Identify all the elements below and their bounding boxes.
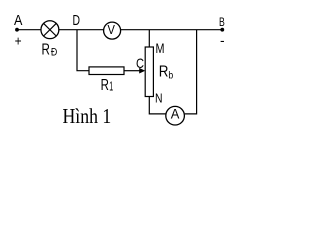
svg-text:1: 1	[109, 78, 113, 93]
ammeter A	[166, 106, 185, 125]
svg-text:C: C	[136, 55, 144, 71]
wire lamp to voltmeter	[59, 29, 103, 31]
wire voltmeter to node B	[121, 29, 223, 31]
wire D down and across to R1	[77, 30, 89, 71]
svg-text:B: B	[219, 15, 225, 29]
svg-text:N: N	[155, 90, 163, 105]
svg-text:V: V	[108, 23, 116, 37]
wire ammeter up to top wire near B	[185, 30, 197, 114]
svg-text:Hình 1: Hình 1	[63, 104, 112, 128]
node B	[219, 15, 225, 48]
resistor R1	[89, 67, 124, 94]
wire R1 to slider arrow C	[124, 68, 145, 74]
svg-text:Đ: Đ	[51, 47, 58, 59]
wire N down to ammeter	[149, 97, 165, 114]
wire A to lamp	[17, 29, 41, 31]
svg-text:A: A	[14, 12, 22, 29]
svg-text:+: +	[15, 32, 22, 48]
svg-text:M: M	[156, 40, 165, 56]
svg-text:R: R	[159, 63, 169, 80]
wire top junction to M (rheostat top)	[148, 30, 150, 47]
rheostat Rb	[145, 47, 173, 97]
voltmeter V	[104, 22, 121, 39]
svg-text:R: R	[101, 77, 109, 94]
svg-text:R: R	[42, 42, 50, 59]
svg-text:-: -	[220, 32, 225, 48]
svg-text:D: D	[73, 13, 81, 29]
lamp RD	[41, 21, 59, 59]
svg-text:b: b	[168, 69, 173, 81]
node A	[14, 12, 22, 48]
svg-text:A: A	[171, 106, 180, 122]
